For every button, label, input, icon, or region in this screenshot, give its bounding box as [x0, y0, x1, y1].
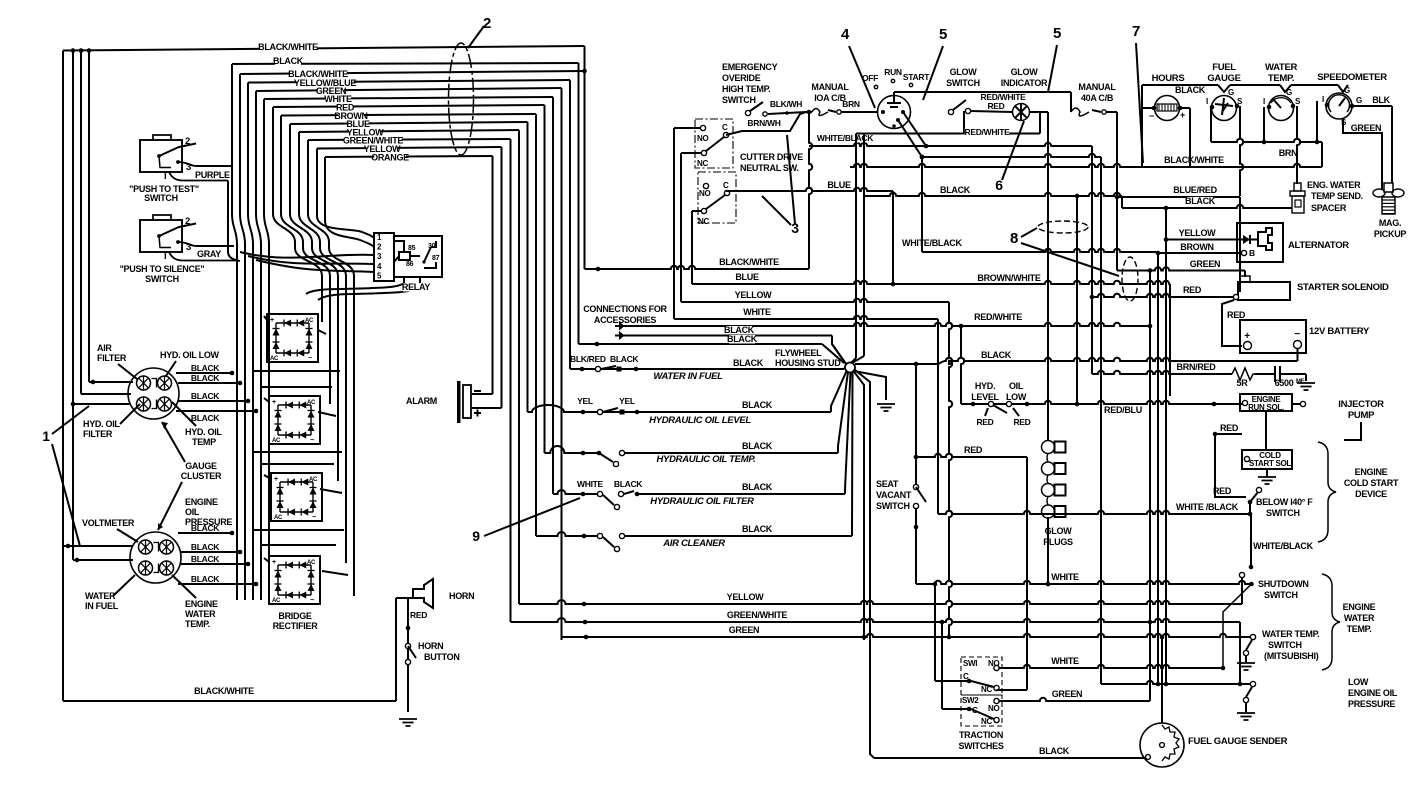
label BLACK 488: [742, 482, 773, 492]
label WHITE 663: [1051, 656, 1079, 666]
wire hours left: [1142, 85, 1218, 167]
svg-text:BLACK: BLACK: [733, 358, 764, 368]
label WHITE/BLACK 141: [817, 133, 874, 143]
wire bus 1092: [1091, 146, 1093, 374]
battery box: [1240, 320, 1306, 353]
svg-text:ACCESSORIES: ACCESSORIES: [594, 315, 657, 325]
label BLUE: [346, 119, 370, 129]
leader air filter: [118, 364, 137, 379]
wire fuel S drop: [1240, 106, 1243, 196]
svg-text:VACANT: VACANT: [876, 490, 912, 500]
alternator connector: [1258, 228, 1272, 250]
svg-text:SWITCH: SWITCH: [1268, 640, 1302, 650]
label BLACK/WHITE 162: [1164, 155, 1224, 165]
wire BLUE top run: [290, 122, 528, 124]
callout 1: [42, 428, 50, 444]
label 6500MF: [1275, 378, 1305, 388]
leader 4: [849, 46, 875, 108]
label HYD OIL TEMP: [185, 427, 222, 447]
label GREEN/WHITE: [343, 136, 403, 146]
stud fan e: [854, 371, 865, 640]
wire harness right group: [273, 107, 322, 322]
svg-text:12V BATTERY: 12V BATTERY: [1309, 326, 1370, 337]
label YEL 2: [619, 396, 635, 406]
traction sw1: [967, 665, 999, 690]
svg-text:YELLOW: YELLOW: [1179, 228, 1217, 238]
alarm symbol: [457, 381, 481, 423]
svg-text:RECTIFIER: RECTIFIER: [273, 621, 319, 631]
svg-text:PURPLE: PURPLE: [195, 170, 230, 180]
cutter sw2 contacts: [701, 183, 729, 213]
svg-text:6500: 6500: [1275, 378, 1294, 388]
leader engine water temp: [172, 575, 196, 598]
label VOLTMETER: [82, 518, 135, 528]
svg-text:BLACK: BLACK: [191, 554, 220, 564]
label BRN right: [1279, 148, 1298, 158]
stud fan c: [845, 373, 851, 495]
svg-text:C: C: [972, 706, 978, 715]
svg-text:RED: RED: [1013, 417, 1030, 427]
svg-text:BLACK/WHITE: BLACK/WHITE: [1164, 155, 1224, 165]
alternator B: [1241, 248, 1255, 258]
svg-text:RED/BLU: RED/BLU: [1104, 405, 1142, 415]
svg-text:PICKUP: PICKUP: [1374, 229, 1407, 239]
label MAG PICKUP: [1374, 218, 1407, 239]
push-to-silence switch: [140, 215, 196, 252]
svg-text:HYDRAULIC OIL LEVEL: HYDRAULIC OIL LEVEL: [649, 415, 751, 426]
svg-text:3: 3: [186, 162, 191, 173]
nest join dot: [582, 69, 587, 74]
wire blue 191: [726, 188, 893, 284]
label WATER TEMP: [1265, 62, 1298, 84]
wire blkwh junction drop: [809, 112, 812, 269]
stud fan b: [838, 372, 848, 453]
svg-text:WATER: WATER: [85, 591, 116, 601]
ground low oil: [1237, 713, 1255, 720]
svg-text:TEMP SEND.: TEMP SEND.: [1311, 191, 1363, 201]
svg-text:+: +: [270, 317, 274, 324]
label 12V BATTERY: [1309, 326, 1370, 337]
wire hyd-oil-filter: [553, 490, 845, 510]
wire red/white 135: [850, 111, 1040, 364]
cutter sw1 labels: [697, 123, 728, 168]
svg-text:5: 5: [939, 26, 947, 43]
wire green 637: [562, 634, 1256, 640]
wire GREEN/WHITE top run: [308, 139, 511, 140]
label MANUAL 10A C/B: [811, 82, 849, 103]
svg-text:"PUSH TO SILENCE": "PUSH TO SILENCE": [120, 264, 205, 274]
svg-text:HYDRAULIC OIL TEMP.: HYDRAULIC OIL TEMP.: [657, 454, 756, 465]
svg-text:ALTERNATOR: ALTERNATOR: [1288, 240, 1349, 251]
svg-text:40A C/B: 40A C/B: [1081, 93, 1114, 103]
svg-text:NO: NO: [988, 659, 999, 668]
label ENG WATER TEMP SEND: [1307, 180, 1363, 201]
wire traction feed2: [940, 620, 967, 709]
stud spoke E: [855, 362, 938, 367]
svg-text:TEMP.: TEMP.: [1347, 624, 1372, 634]
label GAUGE CLUSTER: [181, 461, 222, 481]
wire white/black 514: [938, 511, 1251, 567]
traction box: [961, 657, 1002, 726]
label RED a: [976, 417, 993, 427]
wire accessory 3: [579, 342, 845, 363]
svg-text:NC: NC: [697, 159, 708, 168]
svg-text:AC: AC: [272, 438, 281, 444]
svg-text:−: −: [308, 355, 312, 362]
label GLOW PLUGS: [1043, 526, 1073, 547]
label WATER IN FUEL: [653, 371, 723, 382]
label RED glow: [987, 101, 1004, 111]
wire glow chain down: [1046, 517, 1051, 586]
stud fan f: [855, 370, 875, 759]
callout 7: [1132, 23, 1140, 40]
label ALTERNATOR: [1288, 240, 1349, 251]
svg-text:DEVICE: DEVICE: [1355, 489, 1387, 499]
key switch: [878, 96, 911, 129]
label WHITE 319: [743, 307, 771, 317]
bridge rectifier 2: [269, 396, 320, 444]
wire key diag 2: [898, 120, 1101, 159]
run sol right pin: [1292, 401, 1306, 406]
svg-text:BLACK: BLACK: [981, 350, 1012, 360]
svg-text:5R: 5R: [1237, 378, 1249, 388]
svg-text:PRESSURE: PRESSURE: [1348, 699, 1395, 709]
wire BLACK/WHITE top run: [63, 46, 585, 51]
label BELOW 140F SWITCH: [1256, 497, 1313, 518]
svg-text:NC: NC: [981, 717, 992, 726]
svg-text:SPEEDOMETER: SPEEDOMETER: [1317, 72, 1387, 83]
wire nest vertical: [492, 156, 494, 394]
svg-text:B: B: [1249, 248, 1255, 258]
label RED 457: [964, 445, 983, 455]
wire white 584: [916, 581, 1252, 587]
horn button contacts: [405, 626, 416, 665]
cluster2 right wires: [178, 531, 258, 587]
leader 3a: [762, 196, 791, 225]
svg-text:SWITCH: SWITCH: [876, 501, 910, 511]
wire bus 1166: [1164, 206, 1169, 684]
water temp switch: [1243, 640, 1252, 662]
wire left border bus: [63, 51, 89, 702]
svg-text:HYD. OIL: HYD. OIL: [83, 419, 120, 429]
label CUTTER DRIVE NEUTRAL SW: [740, 152, 803, 173]
label EMERGENCY OVERIDE: [722, 62, 778, 105]
wire blue/red 197: [1115, 195, 1240, 292]
label YELLOW alt: [1179, 228, 1217, 238]
svg-text:WATER TEMP.: WATER TEMP.: [1262, 629, 1319, 639]
svg-text:BLACK: BLACK: [742, 524, 773, 534]
label WATER IN FUEL: [85, 591, 119, 611]
svg-text:FILTER: FILTER: [83, 429, 113, 439]
wire WHITE 319: [674, 316, 938, 319]
wire purple vertical: [228, 181, 240, 262]
wire 916 seat: [913, 364, 926, 584]
wire 961 drop: [961, 326, 964, 404]
wire bus 1101: [1100, 157, 1102, 684]
label ENGINE OIL PRESSURE: [185, 497, 232, 527]
svg-text:INJECTOR: INJECTOR: [1338, 399, 1384, 410]
ground water temp sw: [1237, 663, 1255, 670]
label CONNECTIONS FOR ACCESSORIES: [583, 304, 667, 325]
label GREEN sol: [1190, 259, 1221, 269]
label GLOW INDICATOR: [1001, 67, 1048, 88]
label START: [903, 72, 930, 87]
svg-text:+: +: [1244, 331, 1250, 342]
svg-text:(MITSUBISHI): (MITSUBISHI): [1264, 651, 1319, 661]
callout 5a: [939, 26, 947, 43]
wire glow sw to indicator: [971, 111, 1012, 112]
svg-text:7: 7: [1132, 23, 1140, 40]
wire 938 drop: [937, 319, 939, 514]
eng water temp send: [1290, 183, 1305, 213]
label BLACK 191: [940, 185, 971, 195]
label SPACER: [1311, 203, 1347, 213]
svg-text:RED: RED: [1227, 310, 1246, 320]
fuel sender: [1140, 723, 1184, 767]
svg-text:YEL: YEL: [619, 396, 635, 406]
breaker 40A: [1071, 108, 1117, 271]
svg-text:NC: NC: [698, 217, 709, 226]
bridge rectifier 1: [267, 314, 318, 362]
label 5R: [1237, 378, 1249, 388]
ground cap: [1297, 383, 1315, 390]
wire yellow 604: [519, 600, 1242, 606]
svg-text:TEMP.: TEMP.: [185, 619, 210, 629]
wire BLACK top run: [232, 63, 579, 64]
svg-text:+: +: [272, 399, 276, 406]
svg-text:YELLOW: YELLOW: [735, 290, 773, 300]
leader red b: [1013, 408, 1019, 416]
svg-text:IN FUEL: IN FUEL: [85, 601, 119, 611]
label STARTER SOLENOID: [1297, 282, 1389, 293]
svg-text:87: 87: [432, 255, 440, 262]
wire harness left group: [232, 64, 237, 600]
svg-text:SWITCH: SWITCH: [144, 193, 178, 203]
wire yellow 604 turnup: [1241, 577, 1243, 604]
wire harness left group: [264, 99, 269, 600]
svg-text:BLUE: BLUE: [827, 180, 851, 190]
wire speedo blk: [1354, 106, 1392, 183]
cutter switch box 1: [695, 119, 733, 168]
label push-to-test: [129, 184, 199, 203]
svg-text:MAG.: MAG.: [1379, 218, 1401, 228]
wire pin1 silence: [169, 252, 236, 261]
low oil switch: [1243, 687, 1252, 712]
svg-text:BLACK: BLACK: [940, 185, 971, 195]
label YELLOW 302: [735, 290, 773, 300]
svg-text:BROWN/WHITE: BROWN/WHITE: [977, 273, 1040, 283]
wire air-cleaner: [536, 532, 852, 552]
bridge rectifier 3: [271, 473, 322, 521]
svg-text:FUEL GAUGE SENDER: FUEL GAUGE SENDER: [1188, 736, 1288, 747]
fuel gauge: [1206, 88, 1243, 121]
svg-text:2: 2: [185, 136, 190, 147]
svg-text:NO: NO: [697, 134, 708, 143]
svg-text:AC: AC: [272, 598, 281, 604]
svg-text:RED: RED: [976, 417, 993, 427]
svg-text:BRIDGE: BRIDGE: [278, 611, 311, 621]
svg-text:GRAY: GRAY: [197, 249, 221, 259]
svg-text:TRACTION: TRACTION: [959, 730, 1003, 740]
hour meter: [1149, 96, 1185, 122]
junction dots top-left: [71, 48, 92, 53]
label HYDRAULIC OIL FILTER: [650, 496, 754, 507]
wire brn/wh: [726, 112, 806, 135]
svg-text:HYD. OIL LOW: HYD. OIL LOW: [160, 350, 220, 360]
label HORN: [449, 591, 474, 601]
key switch top line: [894, 92, 1071, 112]
svg-text:ENG. WATER: ENG. WATER: [1307, 180, 1361, 190]
wire black spacer: [1122, 205, 1292, 208]
svg-text:SWІ: SWІ: [963, 659, 977, 668]
svg-text:LEVEL: LEVEL: [971, 392, 999, 402]
svg-text:CUTTER DRIVE: CUTTER DRIVE: [740, 152, 803, 162]
ellipse 8a: [1038, 221, 1088, 233]
bridge rectifier 4: [269, 556, 320, 604]
label GREEN speedo: [1351, 123, 1382, 133]
label YELLOW: [347, 128, 385, 138]
wire red solenoid: [1090, 294, 1239, 300]
svg-text:GREEN: GREEN: [1190, 259, 1221, 269]
leader injector: [1344, 422, 1361, 440]
svg-text:C: C: [722, 123, 728, 132]
wire green/white 622: [511, 618, 1241, 684]
leader 6: [1002, 121, 1024, 180]
svg-text:BLACK: BLACK: [742, 441, 773, 451]
stud fan d: [851, 372, 854, 536]
alarm wires: [472, 394, 502, 408]
wire rect left elbows: [264, 316, 271, 562]
label WHITE 584: [1051, 572, 1079, 582]
leader gauge cluster down: [158, 482, 182, 530]
svg-text:START SOL: START SOL: [1249, 459, 1291, 468]
wire BLUE 284: [692, 281, 1170, 396]
svg-text:RUN: RUN: [884, 67, 902, 77]
svg-text:PUMP: PUMP: [1348, 410, 1375, 421]
label BRN/WH: [747, 118, 780, 128]
svg-text:NC: NC: [981, 685, 992, 694]
label RED: [336, 103, 355, 113]
wire brn/red: [1092, 371, 1232, 374]
svg-text:RED: RED: [1213, 486, 1232, 496]
callout 2: [483, 15, 491, 32]
label BLK/WH: [770, 99, 802, 109]
svg-text:BLACK: BLACK: [610, 354, 639, 364]
wire WHITE top run: [264, 97, 553, 99]
label HYD OIL FILTER: [83, 419, 120, 439]
svg-text:G: G: [1344, 86, 1350, 95]
battery terminals: [1244, 329, 1302, 350]
emergency override switch: [745, 102, 806, 116]
svg-text:WATER: WATER: [1265, 62, 1298, 73]
wire nest vertical: [578, 63, 580, 344]
svg-text:BLACK: BLACK: [742, 482, 773, 492]
svg-text:GLOW: GLOW: [1011, 67, 1039, 77]
wire YELLOW 302: [681, 299, 949, 302]
label RED cs1: [1220, 423, 1239, 433]
svg-text:BLK: BLK: [1372, 95, 1390, 105]
svg-text:G: G: [1286, 88, 1292, 97]
svg-text:ENGINE: ENGINE: [185, 497, 218, 507]
svg-text:AC: AC: [274, 515, 283, 521]
mag pickup: [1373, 183, 1404, 214]
svg-text:HYD.: HYD.: [975, 381, 995, 391]
wire bus 1150: [1148, 268, 1153, 701]
svg-text:BLACK: BLACK: [191, 413, 220, 423]
label WATER TEMP SWITCH: [1262, 629, 1319, 661]
wire rectifier links 1: [252, 371, 340, 387]
svg-text:I: I: [1322, 95, 1324, 104]
svg-text:WHITE: WHITE: [1051, 656, 1079, 666]
wire BLACK/WHITE 269: [585, 266, 810, 272]
svg-text:RED: RED: [1220, 423, 1239, 433]
wire nest vertical: [535, 114, 537, 536]
flywheel stud node: [845, 363, 855, 373]
cutter sw1 contacts: [700, 125, 728, 155]
resistor 5R: [1232, 368, 1255, 380]
svg-text:MANUAL: MANUAL: [811, 82, 849, 92]
leader hyd oil temp: [172, 402, 196, 426]
shutdown switch: [1223, 565, 1254, 668]
wire harness left group: [240, 74, 245, 600]
wire harness to relay: [240, 252, 374, 258]
label RED/WHITE 317: [974, 312, 1022, 322]
svg-text:WATER IN FUEL: WATER IN FUEL: [653, 371, 723, 382]
glow switch: [948, 100, 970, 115]
callout 8: [1010, 230, 1018, 247]
label BLUE/RED: [1173, 185, 1217, 195]
svg-text:AC: AC: [305, 318, 314, 324]
stud fan a: [831, 371, 847, 412]
glow plugs: [1042, 441, 1066, 519]
callout 3: [791, 220, 799, 236]
svg-text:SWITCH: SWITCH: [1266, 508, 1300, 518]
svg-text:C: C: [723, 181, 729, 190]
label RED sol: [1183, 285, 1202, 295]
label GRAY: [197, 249, 221, 259]
svg-text:VOLTMETER: VOLTMETER: [82, 518, 135, 528]
leader 7: [1136, 43, 1143, 163]
traction sw2 labels: [962, 696, 999, 726]
wire nest vertical: [552, 97, 554, 494]
svg-text:+: +: [1180, 110, 1185, 120]
accessory terminal 1: [615, 324, 623, 329]
wire black/white 167: [850, 142, 1322, 167]
label BLACK/WHITE: [258, 42, 318, 52]
label MANUAL 40A C/B: [1078, 82, 1116, 103]
wire nest vertical: [561, 88, 563, 640]
svg-text:BLACK: BLACK: [273, 56, 304, 66]
svg-text:WATER: WATER: [1344, 613, 1375, 623]
label RUN: [884, 67, 902, 83]
svg-text:NO: NO: [699, 189, 710, 198]
svg-text:3: 3: [186, 242, 191, 253]
svg-text:LOW: LOW: [1006, 392, 1027, 402]
svg-text:BLACK/WHITE: BLACK/WHITE: [719, 257, 779, 267]
wire gauge links: [1211, 101, 1322, 144]
svg-text:GREEN: GREEN: [1351, 123, 1382, 133]
label BLACK 344: [727, 334, 758, 344]
leader hyd oil filter: [120, 404, 140, 424]
svg-text:−: −: [1149, 111, 1154, 121]
wire accessory 2: [621, 336, 846, 365]
labels cluster1 blacks: [191, 363, 220, 423]
svg-text:BRN: BRN: [1279, 148, 1298, 158]
svg-text:SEAT: SEAT: [876, 479, 899, 489]
svg-text:9: 9: [472, 528, 480, 544]
svg-text:BLUE: BLUE: [735, 272, 759, 282]
wire below140 down: [1248, 502, 1253, 516]
